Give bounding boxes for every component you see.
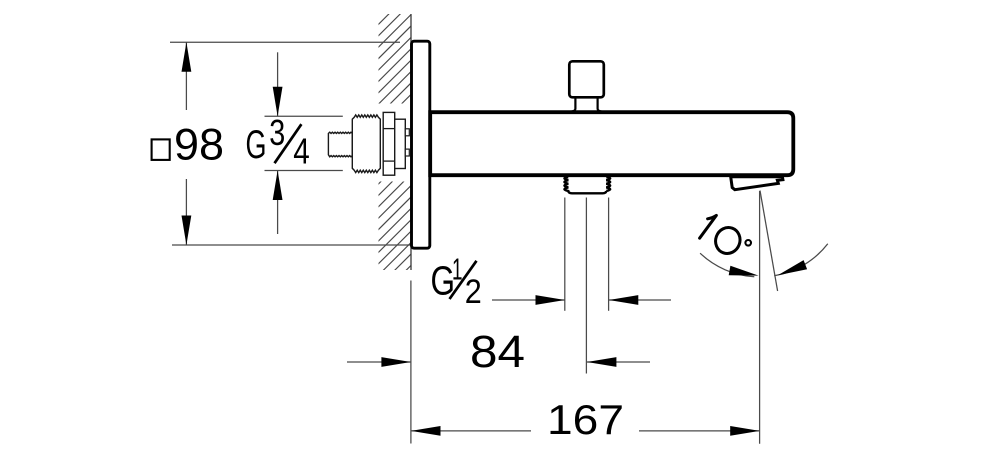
upper tab	[405, 129, 409, 136]
spout tip extension line	[759, 191, 761, 444]
G1/2 left arrow	[492, 295, 565, 305]
diverter knob	[569, 61, 604, 97]
G3/4 top arrow	[273, 52, 283, 116]
dim 98 dimension line with arrows	[182, 42, 192, 245]
svg-text:84: 84	[470, 326, 525, 377]
label G3/4	[246, 112, 310, 172]
wall flange escutcheon	[412, 41, 430, 248]
dim 98 bottom extension line	[172, 244, 411, 246]
svg-text:2: 2	[465, 273, 482, 311]
label square-98	[152, 120, 224, 169]
svg-text:3: 3	[269, 112, 285, 153]
G1/2 outlet thread	[564, 177, 606, 193]
wall face line	[410, 14, 412, 270]
G1/2 thread left extension line	[564, 198, 566, 311]
angle arc right segment with arrow	[774, 244, 828, 276]
dim 98 top extension line	[170, 41, 400, 43]
dim 167 line with arrows	[411, 426, 760, 436]
washer ring divider top	[383, 128, 395, 130]
spout body	[430, 112, 793, 175]
spout angle line 10deg	[760, 191, 778, 292]
G3/4 union nut (knurled)	[352, 115, 380, 173]
inner ring	[395, 119, 406, 168]
G1/2 thread right extension line	[608, 198, 610, 311]
washer ring divider bottom	[383, 160, 395, 162]
dim 84 left arrow	[347, 357, 411, 367]
svg-text:98: 98	[174, 120, 224, 169]
dim 84 right arrow	[587, 357, 650, 367]
label G1/2	[431, 253, 482, 311]
svg-text:G: G	[246, 123, 267, 167]
outlet centerline	[585, 198, 587, 374]
G3/4 threaded stem	[328, 132, 352, 157]
angle arc left segment with arrow	[700, 253, 759, 277]
svg-text:4: 4	[293, 130, 310, 171]
lower tab	[405, 149, 409, 156]
washer ring	[383, 112, 395, 175]
G3/4 top extension line	[265, 115, 343, 117]
wall extension line below	[410, 281, 412, 444]
label 10deg	[700, 215, 751, 257]
G1/2 right arrow	[609, 295, 671, 305]
svg-text:167: 167	[547, 396, 624, 443]
wall hatch	[370, 0, 416, 329]
spout tip outlet	[731, 177, 783, 190]
G3/4 bottom arrow	[273, 171, 283, 235]
G3/4 bottom extension line	[265, 170, 343, 172]
knob stem	[572, 98, 601, 112]
